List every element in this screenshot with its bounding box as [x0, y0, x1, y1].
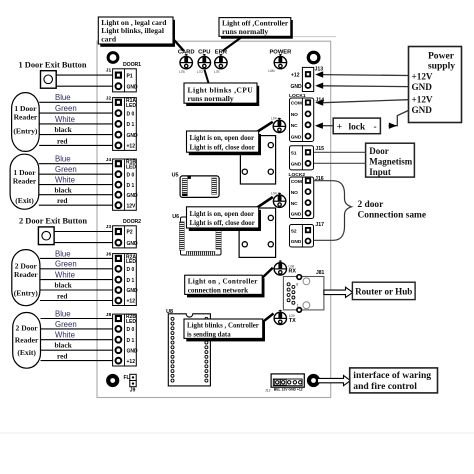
- J6 pin LED: [115, 255, 137, 265]
- svg-text:-: -: [374, 122, 377, 132]
- svg-text:White: White: [55, 331, 75, 340]
- svg-text:interface of waring: interface of waring: [353, 370, 431, 381]
- svg-text:(Entry): (Entry): [14, 289, 39, 298]
- callout tail relay2: [256, 197, 273, 208]
- svg-text:Green: Green: [55, 320, 77, 329]
- wire lock to J14 NC: [315, 123, 333, 129]
- svg-text:Light is off, close door: Light is off, close door: [190, 144, 255, 151]
- svg-text:Reader: Reader: [15, 336, 39, 345]
- svg-text:J2: J2: [106, 96, 112, 102]
- wire reader2A red: [40, 291, 113, 300]
- exit button SW2: [38, 227, 54, 245]
- svg-text:+12: +12: [127, 299, 136, 305]
- svg-text:(Entry): (Entry): [13, 126, 38, 135]
- J14 pin GND: [291, 134, 311, 141]
- svg-text:Blue: Blue: [55, 249, 71, 258]
- J14 pin NC: [291, 122, 311, 129]
- label 2 door Connection same: [358, 200, 427, 221]
- svg-text:GND: GND: [127, 84, 139, 90]
- svg-text:black: black: [55, 125, 73, 134]
- connector J16: [290, 176, 324, 219]
- svg-text:LED: LED: [126, 259, 136, 265]
- svg-text:J12: J12: [265, 389, 271, 393]
- wire reader2A White: [40, 271, 113, 280]
- svg-text:NO: NO: [291, 112, 298, 118]
- svg-text:LED: LED: [126, 164, 136, 170]
- callout cpu blinks: [184, 83, 259, 106]
- J14 pin COM: [291, 99, 311, 106]
- svg-text:1: 1: [297, 303, 299, 307]
- svg-text:J3: J3: [106, 224, 112, 230]
- svg-text:Green: Green: [55, 260, 77, 269]
- callout tail card: [171, 37, 184, 51]
- svg-text:GND: GND: [291, 134, 302, 140]
- svg-text:connection network: connection network: [188, 287, 249, 295]
- LED TX: [274, 310, 296, 325]
- wire GND to door magnetism: [314, 162, 366, 164]
- svg-text:NC: NC: [291, 123, 298, 129]
- wire button2 to J3 P2: [54, 231, 113, 233]
- connector J9: [130, 374, 136, 393]
- svg-text:L7E: L7E: [214, 70, 220, 74]
- J6 pin GND: [116, 287, 139, 294]
- svg-text:U5: U5: [172, 172, 179, 178]
- wire GND to lock: [389, 110, 409, 128]
- callout controller normal: [219, 18, 293, 39]
- svg-text:lock: lock: [349, 122, 366, 132]
- svg-text:2 Door Exit Button: 2 Door Exit Button: [19, 216, 87, 225]
- callout open door 2: [187, 207, 262, 231]
- svg-text:J4: J4: [106, 157, 112, 163]
- svg-text:Green: Green: [55, 104, 77, 113]
- svg-text:GND: GND: [291, 211, 302, 217]
- J6 pin +12: [116, 298, 136, 305]
- J15 pin GND: [291, 161, 311, 168]
- J13 pin GND: [291, 83, 311, 90]
- svg-text:Light blinks ,CPU: Light blinks ,CPU: [188, 85, 254, 94]
- svg-text:12V: 12V: [127, 203, 137, 209]
- svg-text:White: White: [55, 176, 75, 185]
- svg-text:red: red: [57, 291, 68, 300]
- J2 pin GND: [116, 132, 139, 139]
- J2 header R1A: [126, 98, 136, 104]
- svg-text:runs normally: runs normally: [222, 27, 268, 36]
- J3 pin GND: [116, 240, 139, 247]
- U8 left pins: [171, 317, 174, 382]
- svg-text:P1: P1: [127, 73, 133, 79]
- interface box: [350, 368, 438, 393]
- J2 pin D0: [116, 110, 135, 117]
- scan artifact segment: [292, 36, 336, 38]
- svg-text:GND: GND: [412, 82, 433, 92]
- label LOCK2: [289, 172, 306, 178]
- svg-text:COM: COM: [291, 101, 302, 107]
- label DOOR2: [123, 219, 141, 225]
- svg-text:(Exit): (Exit): [15, 196, 34, 205]
- wire button1 to J1 P1: [56, 74, 112, 76]
- Door Magnetism Input box: [366, 143, 415, 177]
- wire reader1B red: [39, 196, 113, 205]
- svg-text:GND: GND: [127, 348, 139, 354]
- svg-text:GND: GND: [127, 193, 139, 199]
- wire reader1B White: [39, 176, 113, 185]
- RJ45 big holes: [303, 278, 310, 309]
- svg-text:Light blinks , Controller: Light blinks , Controller: [187, 322, 259, 329]
- LED RX: [274, 260, 296, 275]
- svg-text:J15: J15: [315, 146, 324, 152]
- J4 pin D1: [116, 182, 135, 189]
- svg-text:NO: NO: [291, 190, 298, 196]
- relay K2: [239, 208, 276, 257]
- connector J15: [290, 146, 325, 170]
- svg-text:Blue: Blue: [55, 93, 71, 102]
- label 1 Door Exit Button: [19, 61, 87, 70]
- svg-text:+12: +12: [127, 359, 136, 365]
- J17 pin GND: [291, 239, 311, 246]
- scan artifact line: [0, 432, 474, 434]
- J6 pin D0: [116, 266, 135, 273]
- svg-text:White: White: [55, 271, 75, 280]
- arrow to interface: [318, 376, 351, 386]
- svg-text:GND: GND: [412, 105, 433, 115]
- svg-text:J9: J9: [130, 388, 136, 394]
- IC U5: [172, 172, 220, 197]
- svg-text:runs normally: runs normally: [188, 94, 234, 103]
- 1 Door Reader (Entry) bubble: [12, 93, 40, 152]
- wire reader2B Blue: [41, 309, 113, 318]
- 1 Door Reader (Exit) bubble: [10, 154, 39, 209]
- svg-text:GND: GND: [291, 239, 302, 245]
- wire reader1B black: [39, 185, 113, 194]
- svg-text:GND: GND: [127, 133, 139, 139]
- U8 right pins: [205, 317, 208, 382]
- svg-text:S1: S1: [291, 151, 297, 157]
- J8 pin D1: [116, 337, 135, 344]
- RJ45 pins: [287, 283, 299, 308]
- J17 pin S2: [291, 227, 311, 234]
- wire reader1B Blue: [39, 155, 113, 164]
- svg-text:COM: COM: [291, 179, 302, 185]
- wire reader2A Blue: [40, 249, 113, 258]
- J1 pin P1: [115, 72, 133, 80]
- svg-text:L6M: L6M: [268, 69, 275, 73]
- svg-text:Router or Hub: Router or Hub: [355, 287, 412, 297]
- svg-text:Connection same: Connection same: [358, 211, 427, 221]
- J1 pin GND: [116, 83, 139, 90]
- wire S1 to door magnetism: [314, 151, 366, 153]
- callout open door 1: [187, 131, 262, 155]
- svg-text:red: red: [57, 196, 68, 205]
- svg-text:GND: GND: [291, 162, 302, 168]
- IC U8: [166, 309, 210, 386]
- J4 header R1B: [126, 160, 136, 166]
- mounting hole top-right: [308, 52, 319, 63]
- svg-text:D 1: D 1: [127, 122, 135, 128]
- lock box: [333, 118, 380, 134]
- label FL: [124, 375, 130, 381]
- svg-text:Reader: Reader: [14, 112, 38, 121]
- connector J3: [106, 224, 137, 248]
- svg-text:DOOR1: DOOR1: [123, 62, 141, 68]
- svg-text:card: card: [101, 35, 117, 44]
- svg-text:D 1: D 1: [127, 183, 135, 189]
- svg-text:GND: GND: [127, 241, 139, 247]
- wire reader2A Green: [40, 260, 113, 269]
- svg-text:Green: Green: [55, 165, 77, 174]
- svg-text:J8: J8: [106, 312, 112, 318]
- svg-text:red: red: [57, 352, 68, 361]
- svg-text:GND: GND: [291, 84, 303, 90]
- callout sending data: [184, 319, 265, 341]
- wire reader2B black: [41, 341, 113, 351]
- J13 pin +12: [291, 71, 311, 79]
- connector J8: [106, 312, 137, 366]
- svg-text:D 1: D 1: [127, 278, 135, 284]
- J8 header R2B: [126, 314, 136, 320]
- svg-text:RX: RX: [289, 269, 297, 275]
- wire reader1A White: [39, 115, 112, 124]
- LED POWER: [268, 50, 292, 74]
- J2 pin +12: [116, 143, 136, 150]
- J8 pin LED: [115, 315, 137, 325]
- wire reader2B White: [41, 331, 113, 340]
- wire +12V to J13: [315, 71, 408, 77]
- svg-text:is sending data: is sending data: [187, 331, 231, 338]
- connector J4: [106, 157, 137, 210]
- svg-text:P2: P2: [127, 230, 133, 236]
- svg-text:DOOR2: DOOR2: [123, 219, 141, 225]
- svg-text:2 Door: 2 Door: [16, 324, 39, 333]
- IC U6: [172, 214, 221, 256]
- label DOOR1: [123, 62, 141, 68]
- svg-text:GND: GND: [127, 288, 139, 294]
- RJ45 jack J81: [283, 270, 324, 310]
- 2 Door Reader (Exit) bubble: [13, 313, 41, 369]
- svg-text:D 1: D 1: [127, 338, 135, 344]
- svg-text:Magnetism: Magnetism: [369, 157, 412, 167]
- J8 pin D0: [116, 326, 135, 333]
- svg-text:(Exit): (Exit): [17, 348, 36, 357]
- connector J12: [265, 374, 304, 393]
- svg-text:L7D: L7D: [197, 70, 204, 74]
- LED L04 door1: [271, 117, 286, 133]
- J3 pin P2: [115, 228, 133, 236]
- 2 Door Reader (Entry) bubble: [12, 250, 40, 306]
- svg-text:TX: TX: [289, 318, 296, 324]
- J4 pin LED: [115, 160, 137, 170]
- LED CARD: [178, 50, 195, 74]
- svg-text:D 0: D 0: [127, 327, 135, 333]
- wire reader1A black: [39, 125, 112, 135]
- svg-text:Reader: Reader: [13, 177, 37, 186]
- svg-text:Light is on, open door: Light is on, open door: [190, 211, 255, 218]
- svg-text:S2: S2: [291, 228, 297, 234]
- J6 pin D1: [116, 277, 135, 284]
- mounting hole top-left: [108, 53, 118, 63]
- svg-text:J17: J17: [315, 222, 324, 228]
- label LOCK1: [289, 93, 306, 99]
- connector J13: [302, 66, 323, 91]
- Router or Hub box: [352, 282, 415, 299]
- mounting hole bottom-left: [108, 376, 117, 385]
- svg-text:Light on , Controller: Light on , Controller: [188, 278, 259, 286]
- J16 pin GND: [291, 211, 311, 218]
- LED CPU: [197, 50, 211, 74]
- LED ERR: [214, 50, 228, 74]
- svg-text:J6: J6: [106, 252, 112, 258]
- wire GND to J13: [315, 83, 408, 89]
- svg-text:8: 8: [296, 283, 298, 287]
- svg-text:Blue: Blue: [55, 155, 71, 164]
- svg-text:+12V: +12V: [412, 95, 433, 105]
- board outline: [97, 41, 331, 397]
- relay K1: [240, 136, 275, 184]
- svg-text:+12: +12: [127, 144, 136, 150]
- svg-text:FL: FL: [124, 375, 130, 381]
- svg-text:2 door: 2 door: [358, 200, 384, 210]
- svg-text:Light is on, open door: Light is on, open door: [190, 135, 255, 142]
- callout tail rx: [261, 268, 273, 279]
- wire button1 to J1 GND: [56, 85, 112, 87]
- connector J6: [106, 252, 137, 306]
- wire reader1B Green: [39, 165, 113, 174]
- svg-text:supply: supply: [428, 61, 455, 72]
- svg-text:D 0: D 0: [127, 267, 135, 273]
- svg-text:Door: Door: [369, 146, 389, 156]
- label 2 Door Exit Button: [19, 216, 87, 225]
- svg-text:LED: LED: [126, 103, 136, 109]
- callout tail cpu: [205, 70, 209, 83]
- Power supply box: [409, 47, 462, 123]
- J4 pin D0: [116, 171, 135, 178]
- svg-text:black: black: [55, 281, 73, 290]
- svg-text:NC: NC: [291, 201, 298, 207]
- wire reader2A black: [40, 281, 113, 290]
- J16 pin COM: [291, 178, 311, 185]
- svg-text:red: red: [57, 136, 68, 145]
- wire reader2B Green: [41, 320, 113, 329]
- J8 pin GND: [116, 347, 139, 354]
- J2 pin D1: [116, 121, 135, 128]
- brace 2 door: [314, 181, 352, 241]
- svg-text:D 0: D 0: [127, 172, 135, 178]
- svg-text:1 Door Exit Button: 1 Door Exit Button: [19, 61, 87, 70]
- wire reader1A Blue: [39, 93, 112, 102]
- svg-text:LED: LED: [126, 319, 136, 325]
- svg-text:J13: J13: [315, 66, 324, 72]
- J2 pin LED: [115, 99, 137, 109]
- arrow to router: [324, 287, 353, 297]
- callout legal card: [98, 17, 175, 47]
- svg-text:J1: J1: [106, 68, 112, 74]
- svg-text:Blue: Blue: [55, 309, 71, 318]
- svg-text:U6: U6: [172, 214, 179, 220]
- svg-text:black: black: [55, 185, 73, 194]
- exit button SW1: [41, 71, 57, 89]
- callout tail relay1: [256, 122, 273, 133]
- J15 pin S1: [291, 149, 311, 156]
- J6 header R2A: [126, 254, 136, 260]
- connector J1: [106, 68, 137, 92]
- svg-text:+12: +12: [291, 73, 300, 79]
- J4 pin GND: [116, 192, 139, 199]
- J16 pin NC: [291, 200, 311, 207]
- svg-text:Input: Input: [369, 167, 391, 177]
- svg-text:and fire control: and fire control: [353, 381, 417, 392]
- connector J17: [290, 222, 325, 247]
- J4 pin 12V: [116, 202, 137, 209]
- svg-text:BEL 12V GND +12: BEL 12V GND +12: [274, 388, 303, 392]
- svg-text:+12V: +12V: [412, 71, 433, 81]
- svg-text:Light is off, close door: Light is off, close door: [190, 220, 255, 227]
- svg-text:+: +: [337, 122, 342, 132]
- svg-text:Reader: Reader: [14, 270, 38, 279]
- svg-text:D 0: D 0: [127, 111, 135, 117]
- callout network: [185, 275, 265, 297]
- J16 pin NO: [291, 189, 311, 196]
- mounting hole bottom-right: [309, 376, 318, 385]
- LED L05 door2: [271, 192, 286, 208]
- wire button2 to J3 GND: [54, 242, 113, 244]
- J8 pin +12: [116, 358, 136, 365]
- connector J14: [290, 97, 325, 141]
- svg-text:White: White: [55, 115, 75, 124]
- callout tail err: [223, 38, 242, 52]
- wire reader1A Green: [39, 104, 112, 113]
- connector J2: [106, 96, 137, 151]
- svg-text:L7B: L7B: [179, 70, 185, 74]
- wire reader1A red: [39, 136, 112, 145]
- svg-text:J81: J81: [316, 270, 325, 276]
- callout tail tx: [262, 314, 274, 323]
- J14 pin NO: [291, 111, 311, 118]
- wire reader2B red: [41, 352, 113, 361]
- svg-text:black: black: [55, 341, 73, 350]
- RJ45 mount rings: [297, 275, 302, 313]
- wire +12V to J14 COM: [315, 99, 408, 105]
